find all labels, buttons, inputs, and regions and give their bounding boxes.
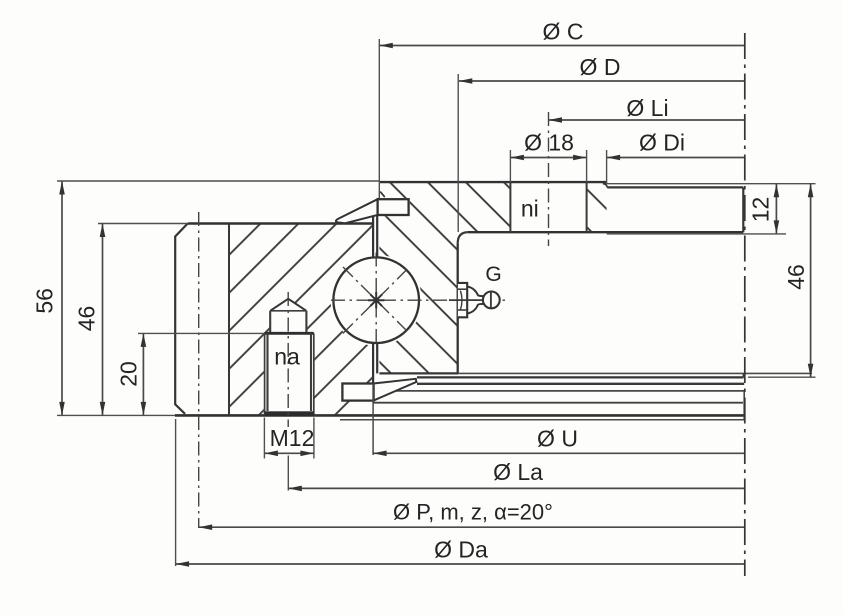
arrowhead C left: [379, 43, 393, 49]
grease fitting base curved face: [460, 291, 462, 310]
dim line 46 right: [810, 184, 812, 378]
dim line 12: [775, 184, 777, 234]
top extension line to right dims: [603, 183, 816, 185]
inner ring bottom face extension to 46 dim: [458, 372, 812, 374]
dim line 20: [142, 333, 144, 415]
arrowhead 46r bottom: [808, 364, 814, 378]
bolt na: drill cone tip: [270, 299, 306, 311]
svg-text:46: 46: [74, 306, 100, 332]
extension line 56 top: [57, 180, 379, 182]
bottom face line (outer ring + band): [175, 414, 744, 417]
extension line 46 right bottom: [748, 376, 816, 378]
arrowhead La left: [288, 486, 302, 492]
ball horizontal centerline / grease axis (dash-dot): [331, 299, 508, 301]
ni hole centerline (dash-dot): [548, 112, 550, 246]
(see bore ext): [458, 73, 460, 75]
svg-text:Ø Di: Ø Di: [639, 130, 685, 156]
ni hole left wall: [509, 182, 511, 232]
main axis centerline (right, dash-dot): [744, 33, 746, 576]
dim line 18: [510, 157, 586, 159]
extension line La: [287, 456, 289, 491]
dim line 46 left: [102, 224, 104, 416]
bolt na centerline (dash-dot): [287, 292, 289, 427]
right edge of lower bands: [743, 391, 745, 420]
svg-text:Ø La: Ø La: [493, 459, 543, 485]
extension line U (gap plane): [372, 383, 374, 455]
extension line C (raceway center): [378, 39, 380, 198]
inner ring recessed seat surface: [607, 186, 743, 188]
grease axis segment through fitting: [449, 299, 484, 301]
outer ring hatched body: [229, 224, 373, 416]
bolt na: dark bottom bar: [265, 411, 314, 416]
band line 402: [373, 402, 743, 404]
grease fitting neck outline bottom: [467, 304, 483, 314]
dim line Li: [549, 119, 745, 121]
arrowhead 46 bottom: [100, 402, 106, 416]
extension line OD / bore face upper: [457, 74, 459, 232]
gear root edge (right edge of tooth strip): [228, 224, 230, 416]
dim line U: [373, 452, 745, 454]
extension line 46 top: [98, 223, 188, 225]
gear pitch line / extension P (dash-dot): [198, 212, 200, 528]
bottom extension line for 12 dim: [607, 233, 786, 235]
svg-text:Ø P, m, z, α=20°: Ø P, m, z, α=20°: [393, 499, 553, 524]
top seal groove void: [376, 198, 409, 216]
grease fitting collar line top: [458, 288, 467, 290]
ball void: [331, 255, 422, 346]
extension line left edge ni hole: [509, 150, 511, 182]
svg-text:ni: ni: [521, 196, 539, 222]
dim line 56: [61, 181, 63, 415]
dim line D: [459, 80, 745, 82]
gear tooth flank (left edge with chamfers): [175, 223, 188, 414]
ni hole right wall: [586, 182, 588, 232]
arrowhead 12 bottom: [774, 220, 780, 234]
grease passage void: [444, 293, 458, 306]
bottom extension line to left dims: [57, 414, 175, 416]
svg-text:G: G: [485, 263, 501, 286]
extension line 20 top: [138, 332, 264, 334]
svg-text:56: 56: [31, 288, 57, 314]
grease fitting ball equator line: [490, 292, 492, 308]
ball vertical centerline (dash-dot): [375, 253, 377, 348]
ball 45-deg centerline NE (dash-dot): [343, 267, 409, 333]
thin lower band line: [340, 419, 744, 421]
ball center star mark: [368, 292, 384, 308]
svg-text:M12: M12: [270, 425, 315, 451]
raceway gap left edge above ball: [372, 215, 374, 257]
outer ring top surface: [188, 222, 373, 224]
extension line M12 left: [263, 418, 265, 459]
bolt hole void (outer ring): [265, 299, 314, 416]
bolt na: hole right edge: [313, 333, 315, 415]
dim line C: [379, 45, 745, 47]
bolt na: thread right line: [310, 333, 312, 411]
svg-text:na: na: [274, 344, 300, 370]
band line 390: [373, 390, 744, 392]
dim line Di: [607, 157, 745, 159]
inner ring hatched body: [379, 182, 606, 373]
bolt na: thread end shoulder: [265, 332, 314, 335]
svg-text:12: 12: [748, 197, 774, 223]
inner ring bottom face (thick under section): [379, 372, 458, 374]
grease fitting G: base block: [458, 283, 467, 317]
svg-text:46: 46: [783, 264, 809, 290]
dim line Da: [176, 563, 745, 565]
grease fitting G: neck white infill: [467, 286, 484, 313]
dim line P: [199, 526, 745, 528]
dim line M12: [264, 452, 314, 454]
bottom seal body: [342, 384, 373, 401]
band line under seal lip: [417, 383, 744, 385]
svg-text:Ø 18: Ø 18: [524, 130, 574, 156]
arrowhead Di left: [607, 155, 621, 161]
bolt na: shank right edge: [305, 311, 307, 334]
arrowhead M12 right: [300, 451, 314, 457]
raceway gap left edge below ball: [372, 343, 374, 384]
inner ring top-left chamfer: [380, 192, 385, 198]
arrowhead M12 left: [264, 451, 278, 457]
arrowhead 18 right: [573, 155, 587, 161]
arrowhead Da left: [176, 561, 190, 567]
ball (rolling element): [333, 257, 419, 343]
arrowhead 46 top: [100, 224, 106, 238]
svg-text:Ø D: Ø D: [580, 54, 621, 80]
raceway gap right edge above ball: [376, 215, 378, 258]
arrowhead 18 left: [510, 155, 524, 161]
svg-text:20: 20: [116, 361, 142, 387]
bore corner fillet: [458, 232, 468, 243]
arrowhead 56 top: [59, 181, 65, 195]
inner ring bottom recessed seat: [417, 376, 744, 378]
extension line right edge ni hole: [586, 150, 588, 182]
right edge between bottom face lines: [743, 373, 745, 377]
grease fitting ball head: [483, 292, 500, 309]
grease fitting collar line bottom: [458, 309, 467, 311]
arrowhead Li left: [549, 117, 563, 123]
recess shoulder arc: [603, 184, 607, 188]
arrowhead 20 bottom: [141, 402, 147, 416]
arrowhead D left: [459, 78, 473, 84]
svg-text:Ø Da: Ø Da: [434, 537, 488, 563]
inner ring right edge: [742, 187, 744, 232]
dim line La: [288, 487, 745, 489]
extension line Di: [606, 150, 608, 184]
svg-text:Ø C: Ø C: [543, 19, 584, 45]
raceway gap right edge below ball: [376, 343, 378, 374]
arrowhead U left: [373, 451, 387, 457]
arrowhead P left: [199, 524, 213, 530]
extension line M12 right: [313, 418, 315, 459]
grease fitting neck outline top: [467, 286, 483, 296]
bottom seal lip: [373, 379, 416, 401]
arrowhead 12 top: [774, 184, 780, 198]
ni bolt hole void (inner ring): [510, 180, 586, 233]
extension line Da: [175, 419, 177, 566]
bolt na: shank left edge: [269, 311, 271, 334]
svg-text:Ø Li: Ø Li: [626, 95, 668, 121]
bolt na: hole left edge: [264, 333, 266, 415]
bolt na: thread left line: [266, 333, 268, 411]
bolt na: cone base line: [270, 310, 306, 312]
inner ring flange bottom (bore ceiling): [468, 231, 744, 233]
arrowhead 46r top: [808, 184, 814, 198]
inner ring top surface: [379, 181, 606, 183]
arrowhead 56 bottom: [59, 402, 65, 416]
top seal body: [378, 199, 409, 215]
ball 45-deg centerline SE (dash-dot): [343, 267, 409, 333]
arrowhead 20 top: [141, 333, 147, 347]
inner ring bore face: [457, 243, 459, 373]
svg-text:Ø U: Ø U: [537, 426, 578, 452]
top seal lip: [336, 199, 378, 223]
